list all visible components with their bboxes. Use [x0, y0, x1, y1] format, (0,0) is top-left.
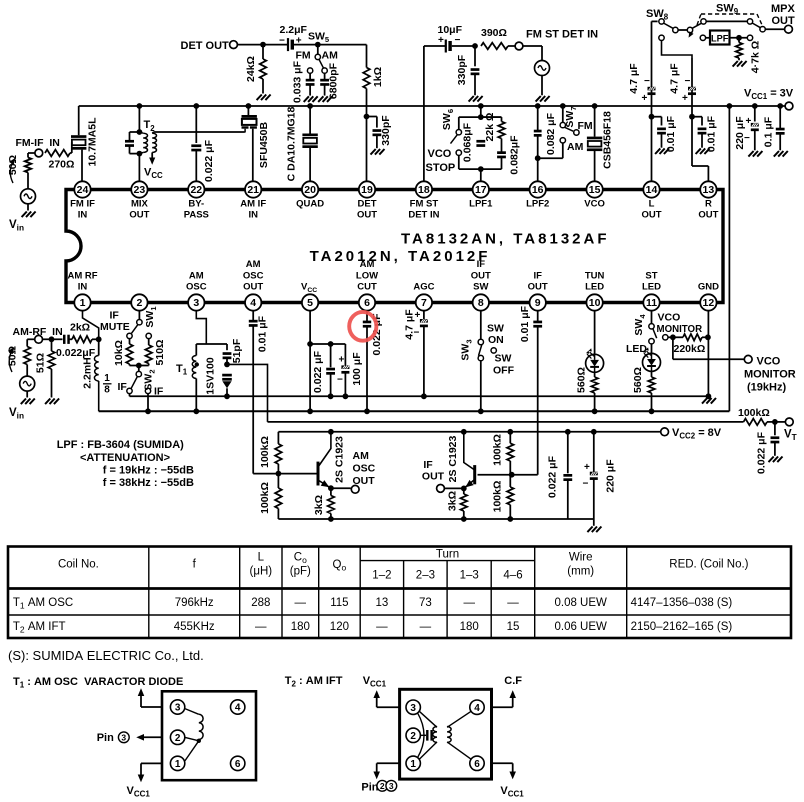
wire [593, 479, 595, 519]
svg-text:LED: LED [585, 282, 604, 293]
capacitor 0.022μF pin6 [363, 322, 371, 326]
junction [96, 336, 102, 342]
junction [328, 341, 334, 347]
svg-text:3: 3 [193, 297, 199, 309]
table h f [193, 559, 197, 571]
wire [767, 421, 775, 423]
svg-text:22: 22 [190, 184, 202, 196]
label SW8 [646, 8, 669, 22]
svg-text:0.022 μF: 0.022 μF [547, 455, 559, 498]
wire [480, 169, 482, 181]
svg-text:MONITOR: MONITOR [657, 324, 703, 335]
T2 wire p3 [377, 706, 400, 708]
table column line [281, 547, 283, 639]
svg-text:24kΩ: 24kΩ [245, 56, 257, 82]
wire [309, 148, 311, 181]
svg-text:12: 12 [703, 297, 715, 309]
LPF input contact [700, 35, 705, 40]
junction [509, 472, 515, 478]
svg-text:100kΩ: 100kΩ [492, 434, 504, 466]
pin 24 [74, 181, 90, 197]
svg-text:OUT: OUT [641, 210, 661, 221]
svg-text:OUT: OUT [129, 210, 149, 221]
pin 12 [700, 294, 716, 310]
switch SW6 contact bottom [456, 150, 461, 155]
junction [649, 114, 655, 120]
svg-text:390Ω: 390Ω [481, 27, 507, 39]
terminal IF OUT [437, 485, 445, 493]
switch SW8 contact up [673, 27, 678, 32]
wire [138, 366, 140, 372]
wire [330, 374, 332, 397]
wire [678, 29, 687, 31]
svg-text:4·7k Ω: 4·7k Ω [750, 41, 762, 73]
wire [523, 45, 542, 47]
label 560Ω pin11 [632, 367, 644, 393]
wire [43, 338, 52, 340]
pin 8 label [473, 282, 488, 293]
label IF sw2 [154, 386, 164, 398]
label IF frac [118, 381, 128, 393]
svg-text:OUT: OUT [422, 471, 445, 483]
svg-text:RED. (Coil No.): RED. (Coil No.) [669, 559, 748, 571]
junction [193, 408, 199, 414]
svg-text:MPX: MPX [771, 3, 796, 15]
svg-text:T1 : AM OSC VARACTOR DIODE: T1 : AM OSC VARACTOR DIODE [13, 676, 183, 689]
svg-text:0.022 μF: 0.022 μF [203, 139, 215, 182]
pin 18 label [410, 199, 439, 210]
inductor T1 [192, 356, 196, 379]
svg-text:50Ω: 50Ω [7, 155, 19, 175]
junction [260, 42, 266, 48]
wire [129, 146, 131, 154]
capacitor 0.022μF pin5 [326, 369, 335, 373]
note LPF line2 [80, 452, 170, 464]
wire [330, 488, 332, 495]
wire [309, 73, 311, 80]
label VCC1 = 3V [744, 88, 794, 102]
label FM [296, 50, 311, 62]
switch SW2 arm [131, 377, 137, 389]
label 3kΩ Q1 [313, 495, 325, 515]
wire [92, 338, 99, 340]
switch SW9R pole [747, 19, 752, 24]
junction [145, 408, 151, 414]
T2 arc coil [418, 713, 425, 758]
pin 6 label [356, 270, 378, 281]
capacitor 0.01μF pin4 [249, 321, 258, 325]
svg-text:OUT: OUT [528, 282, 548, 293]
T1 wire p1 [141, 762, 162, 764]
wire [252, 129, 254, 182]
label 50Ω [7, 155, 19, 175]
wire [98, 339, 100, 355]
Q2 emitter [464, 480, 475, 489]
junction [364, 408, 370, 414]
capacitor 0.082μF pin16 [534, 131, 542, 135]
transistor Q1 2SC1923 base bar [317, 462, 320, 486]
table r1 Co [295, 597, 307, 609]
label VCO mon2 [757, 356, 781, 368]
switch SW4 pole [649, 324, 654, 329]
svg-text:AM RF: AM RF [67, 270, 97, 281]
label 0.022μF pin22 [203, 139, 215, 182]
arrow curved [10, 160, 14, 183]
ground [774, 151, 788, 157]
wire tuning line [268, 421, 744, 423]
svg-text:IN: IN [78, 282, 88, 293]
wire [376, 117, 378, 128]
label LPF [711, 33, 729, 43]
svg-text:SFU450B: SFU450B [258, 122, 270, 169]
wire [344, 373, 346, 397]
capacitor 0.022μF AM-RF [64, 335, 68, 344]
svg-text:15: 15 [589, 184, 601, 196]
svg-text:IN: IN [78, 210, 88, 221]
table column line [446, 561, 448, 638]
wire [138, 106, 140, 132]
label 8 [104, 385, 110, 396]
label 100kΩ Q1 lower [259, 482, 271, 514]
table r1 t12 [376, 597, 389, 609]
svg-text:10.7MA5L: 10.7MA5L [87, 117, 99, 167]
svg-text:−: − [644, 76, 650, 87]
label SW2 [143, 369, 157, 390]
wire VCC bus [99, 410, 730, 412]
table r1 wire [554, 597, 607, 609]
label 19kHz [747, 382, 786, 394]
junction [478, 103, 484, 109]
label AM [322, 50, 339, 62]
T2 diag p6 [447, 742, 471, 759]
svg-text:f = 38kHz : −55dB: f = 38kHz : −55dB [103, 477, 194, 489]
table outer [8, 547, 791, 639]
wire [262, 79, 264, 94]
svg-text:MIX: MIX [131, 199, 149, 210]
svg-text:1: 1 [80, 297, 86, 309]
pin 10 label [585, 270, 605, 281]
terminal VT [785, 418, 793, 426]
pin 7 label [413, 282, 434, 293]
svg-text:+: + [584, 462, 590, 473]
svg-text:2: 2 [380, 781, 385, 791]
T2 arrow up L [374, 692, 379, 698]
svg-text:0.022 μF: 0.022 μF [756, 431, 768, 474]
label 0.033μF [292, 60, 304, 103]
svg-text:100kΩ: 100kΩ [492, 481, 504, 513]
pin 11 [643, 294, 659, 310]
resistor 50Ω [25, 158, 32, 173]
label 24kΩ [245, 56, 257, 82]
label 0.068μF [462, 122, 474, 162]
linkage SW9 dashed [697, 14, 763, 27]
table h Co [294, 552, 307, 566]
label 3kΩ Q2 [447, 491, 459, 511]
svg-text:−: − [337, 375, 343, 386]
svg-text:22k Ω: 22k Ω [484, 113, 496, 142]
svg-text:2.2μF: 2.2μF [280, 24, 308, 36]
label SW off1 [495, 353, 512, 365]
svg-text:20: 20 [304, 184, 316, 196]
svg-text:1–2: 1–2 [372, 570, 391, 582]
wire [129, 339, 131, 344]
label 100kΩ tuning [738, 407, 770, 419]
wire [541, 46, 543, 60]
pin 8 [473, 294, 489, 310]
svg-text:0.033 μF: 0.033 μF [292, 60, 304, 103]
resistor 51Ω [48, 351, 55, 369]
ground pin12 [702, 398, 716, 404]
svg-text:73: 73 [419, 597, 432, 609]
capacitor 4.7μF pin7 [420, 319, 428, 326]
wire [27, 338, 35, 340]
table r2 red [631, 621, 733, 633]
wire bottom rail [278, 518, 593, 520]
pin 11 label [645, 270, 657, 281]
pin 1 label [67, 270, 97, 281]
junction [328, 393, 334, 399]
svg-text:8: 8 [478, 297, 484, 309]
label 4.7kΩ [750, 41, 762, 73]
svg-text:24: 24 [77, 184, 89, 196]
wire [27, 153, 29, 158]
wire [70, 152, 72, 154]
svg-text:−: − [414, 328, 420, 339]
inductor 2.2mH [94, 356, 98, 382]
svg-text:13: 13 [376, 597, 389, 609]
svg-text:18: 18 [418, 184, 430, 196]
source Vin AM [20, 376, 35, 391]
wire [423, 326, 425, 396]
wire [738, 38, 740, 43]
junction T1 tap [195, 362, 199, 366]
label SW6 [441, 109, 455, 130]
svg-text:OSC: OSC [243, 270, 264, 281]
wire [661, 117, 663, 126]
wire [661, 133, 663, 147]
wire [26, 339, 28, 346]
table column line [403, 561, 405, 638]
pin 18 label [408, 210, 439, 221]
table h pF [290, 566, 311, 578]
pin 12 label [698, 282, 719, 293]
label 220μF [734, 116, 746, 150]
label 0.082μF pin17 [509, 135, 521, 175]
arrow curved AM [9, 349, 13, 372]
wire [651, 371, 653, 377]
wire pin9 [537, 311, 539, 322]
capacitor 4.7μF pin13 [688, 87, 696, 94]
wire [376, 135, 378, 148]
wire pin14 column [651, 21, 653, 181]
wire VCC1 bus [79, 105, 786, 107]
junction [193, 103, 199, 109]
table column line [534, 547, 536, 639]
capacitor 330pF pin18 [471, 70, 480, 74]
junction [224, 362, 230, 368]
note LPF line3 [103, 465, 194, 477]
resistor 10kΩ [126, 344, 133, 364]
label 10μF [438, 24, 463, 36]
T2 wire p6 [492, 762, 513, 764]
pin 3 [188, 294, 204, 310]
note LPF line4 [103, 477, 194, 489]
label ON [488, 334, 504, 346]
svg-text:8: 8 [104, 385, 110, 396]
resistor 560Ω pin10 [591, 377, 598, 393]
svg-text:CUT: CUT [357, 282, 377, 293]
table r2 t23 [420, 621, 432, 633]
IC title line1 [401, 231, 610, 248]
wire [754, 106, 756, 122]
wire [148, 364, 150, 366]
svg-text:100kΩ: 100kΩ [259, 482, 271, 514]
wire [151, 152, 153, 158]
svg-text:VCO: VCO [584, 199, 605, 210]
wire [294, 44, 318, 46]
table r2 Co [291, 621, 310, 633]
arrowhead VCC [150, 158, 155, 164]
pin 22 [188, 181, 204, 197]
wire [738, 58, 740, 60]
wire [226, 344, 228, 350]
pin 5 [302, 294, 318, 310]
switch SW2 contact R [145, 388, 150, 393]
svg-text:OUT: OUT [243, 282, 263, 293]
ground [21, 399, 35, 405]
svg-text:10: 10 [589, 297, 601, 309]
svg-text:AM: AM [353, 450, 370, 462]
pin 13 label [705, 199, 712, 210]
pin 17 label [469, 199, 493, 210]
svg-text:0.082μF: 0.082μF [509, 135, 521, 175]
resistor 3kΩ Q1 [328, 496, 335, 514]
resistor 100kΩ Q2 lower [507, 487, 514, 505]
T1 pin2 wire [185, 737, 199, 741]
label 100kΩ Q2 upper [492, 434, 504, 466]
wire [541, 76, 543, 96]
svg-text:IF: IF [477, 259, 486, 270]
wire [463, 511, 465, 519]
switch SW4 arm [653, 329, 657, 339]
junction [137, 103, 143, 109]
svg-text:2: 2 [410, 731, 416, 742]
label 2SC1923 Q1 [334, 436, 346, 483]
switch SW5 contact AM [322, 68, 327, 73]
svg-text:STOP: STOP [426, 162, 456, 174]
svg-text:OUT: OUT [698, 210, 718, 221]
pin 9 label [533, 270, 542, 281]
T1 pad 4 [231, 700, 245, 714]
wire [754, 130, 756, 150]
svg-text:9: 9 [535, 297, 541, 309]
table h 1-2 [372, 570, 391, 582]
wire [27, 204, 29, 211]
switch SW9R contact [760, 27, 765, 32]
svg-text:GND: GND [698, 282, 719, 293]
T2 pad 4 [470, 700, 484, 714]
table h Turn [436, 549, 459, 561]
terminal FM-IF IN [35, 149, 43, 157]
T2 winding right [447, 727, 451, 743]
label 10kΩ [113, 340, 125, 366]
T1 wire p2 [140, 736, 162, 738]
junction [752, 103, 758, 109]
capacitor 0.022μF pin22 [191, 146, 201, 150]
wire [779, 134, 781, 151]
svg-text:1kΩ: 1kΩ [372, 67, 384, 87]
svg-text:IF: IF [423, 459, 433, 471]
label IF [110, 310, 120, 322]
switch SW3 arm [479, 344, 482, 355]
source FM ST DET [535, 61, 550, 76]
fraction bar [103, 383, 112, 385]
pin 1 label [78, 282, 88, 293]
wire [138, 154, 140, 182]
T2 pad 3 [406, 700, 420, 714]
svg-text:AM: AM [567, 141, 584, 153]
label - [337, 375, 343, 386]
svg-text:270Ω: 270Ω [49, 159, 75, 171]
resistor 3kΩ Q2 [461, 494, 468, 511]
table r1 red [631, 597, 733, 609]
wire [195, 379, 197, 412]
label 330pF [380, 115, 392, 146]
T2 wire p4 up [512, 694, 514, 707]
svg-text:<ATTENUATION>: <ATTENUATION> [80, 452, 170, 464]
wire [277, 509, 279, 520]
label STOP [426, 162, 456, 174]
wire [318, 44, 367, 46]
svg-text:FM ST: FM ST [410, 199, 439, 210]
wire [196, 343, 227, 345]
T2 arrow up R [510, 692, 515, 698]
svg-text:220 μF: 220 μF [605, 459, 617, 493]
ground [304, 96, 318, 102]
T1 label VCC1 [127, 785, 151, 798]
transistor Q2 2SC1923 base bar [473, 465, 476, 484]
T1 coil tap [197, 739, 201, 743]
wire [765, 28, 784, 30]
svg-text:1: 1 [104, 373, 110, 384]
label 100kΩ Q1 upper [259, 436, 271, 468]
svg-text:+: + [438, 35, 444, 46]
pin 10 [586, 294, 602, 310]
svg-text:QUAD: QUAD [296, 199, 324, 210]
switch SW4 contact LED [649, 339, 654, 344]
T2 label CF [504, 675, 522, 687]
label IF q2 [423, 459, 433, 471]
svg-text:+: + [415, 310, 421, 321]
pin 20 [302, 181, 318, 197]
T2 label Pin23 [361, 782, 378, 794]
IC TA8132AN outline [66, 190, 723, 303]
label 1SV100 [205, 357, 217, 395]
table h uH [250, 566, 273, 578]
wire [139, 152, 143, 153]
svg-text:MONITOR: MONITOR [744, 369, 796, 381]
table h Coil No. [58, 559, 99, 571]
capacitor 0.022μF VT [771, 438, 780, 442]
arrowhead [9, 348, 14, 353]
junction [307, 341, 313, 347]
svg-text:L: L [258, 552, 265, 564]
label + [415, 310, 421, 321]
table r2 Qo [330, 621, 349, 633]
label - [685, 76, 691, 87]
junction [649, 408, 655, 414]
pin 13 [700, 181, 716, 197]
